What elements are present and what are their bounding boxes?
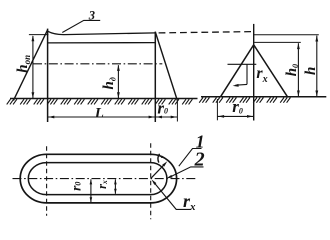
dimension h_op (32, 36, 34, 98)
guy wire left (13, 30, 47, 101)
svg-text:h: h (303, 67, 319, 75)
mast (right) (154, 32, 156, 122)
label 3 leader (62, 20, 100, 32)
outer contour 1 (stadium) (20, 154, 176, 203)
r_x level line (228, 63, 257, 65)
wire lower (48, 42, 156, 44)
dimension h (316, 36, 318, 97)
axis dash-dot (left figure) (33, 63, 162, 65)
dimension h_op extension (29, 34, 49, 36)
dimension r_x (plan) (114, 179, 116, 194)
dimension L (48, 116, 156, 118)
r_x vertical (246, 64, 248, 84)
svg-text:2: 2 (194, 149, 205, 171)
dimension h0 (297, 43, 299, 96)
r0 extension (right figure) (216, 99, 218, 120)
cone axis / mast (253, 24, 255, 121)
centre dashed (right) (150, 143, 152, 219)
r_x arrow (236, 83, 248, 86)
small squiggle mark (158, 154, 160, 163)
extension for h (254, 34, 319, 36)
dimension r0 (left figure) (155, 116, 177, 118)
label r_x leader (153, 182, 191, 210)
dimension L extension (guy anchor) (176, 102, 178, 122)
extension for h0 (254, 41, 301, 43)
centre dashed (left) (46, 146, 48, 216)
label 1 leader (179, 149, 202, 167)
svg-text:3: 3 (88, 8, 95, 22)
dimension h_d (117, 65, 119, 98)
radius arrow to outer arc (151, 164, 165, 179)
inner contour 2 (stadium) (28, 163, 167, 195)
label 2 leader (169, 167, 204, 178)
svg-text:L: L (94, 106, 104, 122)
dimension r0 (plan) (90, 179, 92, 202)
plan axis dash-dot (13, 178, 198, 180)
cone right side (254, 45, 288, 97)
mast (left) (47, 29, 49, 122)
cone left side (221, 45, 254, 97)
wire top (sagging) (48, 31, 156, 34)
guy wire right (155, 32, 177, 101)
ground (left figure) (10, 98, 198, 100)
dashed equal-height line (159, 32, 254, 33)
dimension r0 (right figure) (217, 115, 253, 117)
ground (right figure) (201, 96, 326, 98)
